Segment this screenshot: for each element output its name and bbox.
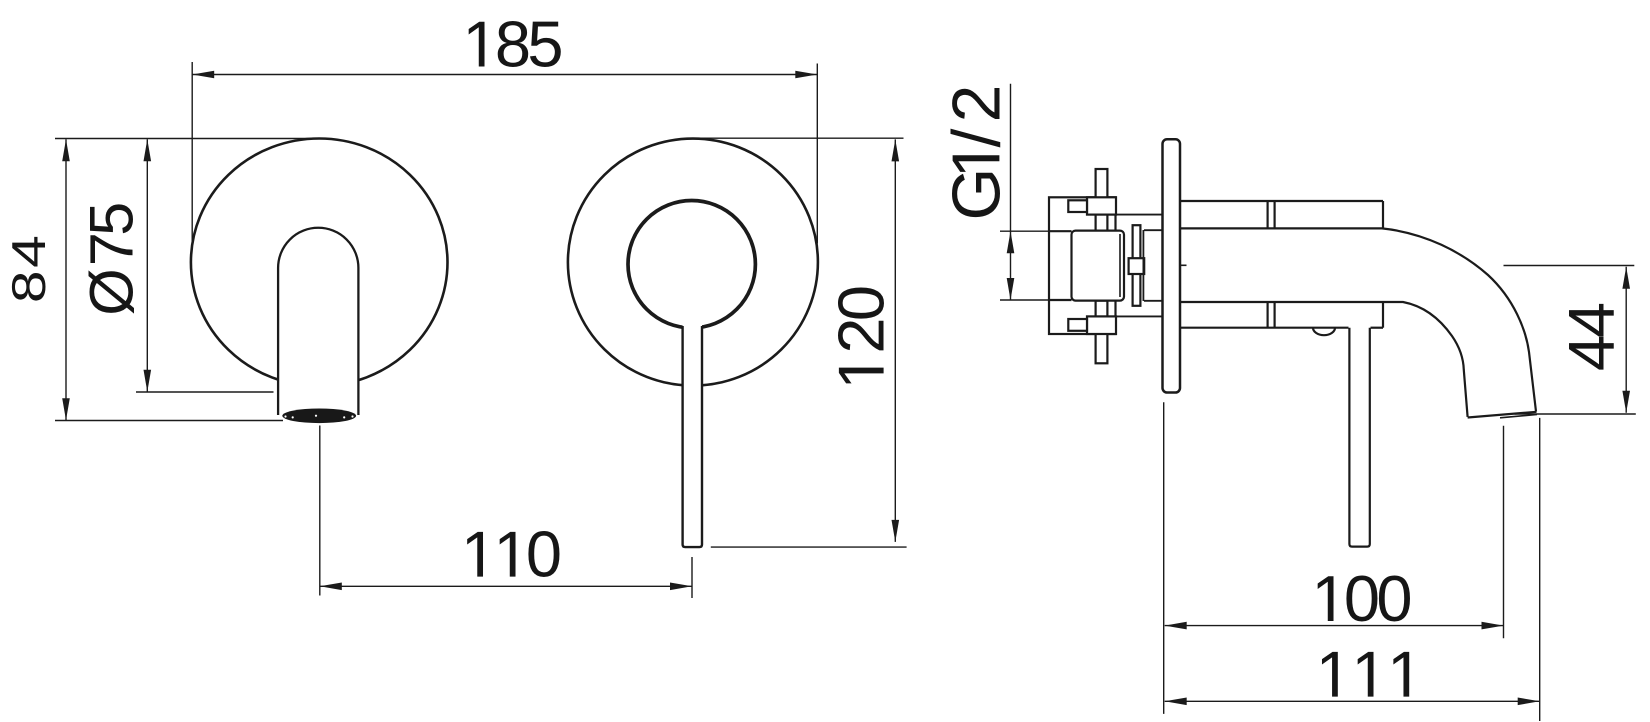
svg-text:4: 4 — [1555, 302, 1628, 338]
svg-text:4: 4 — [1555, 335, 1628, 371]
svg-text:4: 4 — [3, 235, 55, 268]
svg-text:G: G — [938, 168, 1014, 221]
svg-text:2: 2 — [938, 85, 1014, 123]
svg-text:5: 5 — [78, 202, 146, 236]
svg-text:7: 7 — [78, 232, 146, 266]
svg-text:0: 0 — [526, 518, 562, 591]
svg-text:/: / — [938, 128, 1014, 147]
svg-text:8: 8 — [495, 8, 531, 81]
svg-text:0: 0 — [1344, 562, 1380, 635]
svg-text:0: 0 — [825, 285, 898, 321]
svg-text:0: 0 — [1376, 562, 1412, 635]
svg-text:5: 5 — [527, 8, 563, 81]
svg-text:2: 2 — [825, 318, 898, 354]
svg-text:Ø: Ø — [78, 268, 146, 315]
svg-text:8: 8 — [3, 270, 55, 303]
